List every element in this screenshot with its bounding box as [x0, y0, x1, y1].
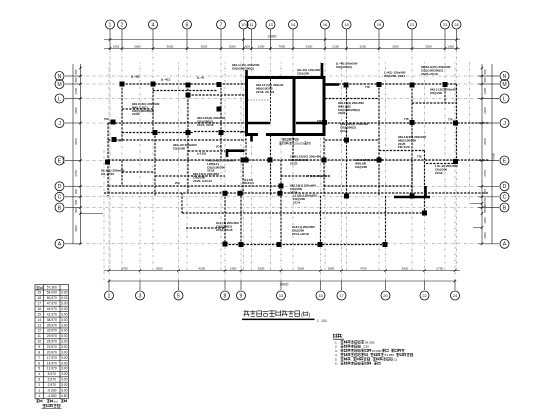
svg-text:-0.030: -0.030: [47, 388, 57, 392]
grid bubble C right: [500, 192, 509, 201]
svg-text:7900: 7900: [278, 44, 285, 48]
svg-text:B: B: [58, 205, 62, 211]
svg-text:A: A: [58, 242, 62, 248]
grid bubble N right: [500, 72, 509, 81]
column C28 at (324,160): [322, 158, 327, 163]
svg-text:-1: -1: [38, 394, 41, 398]
column C8 at (188,132.5): [186, 130, 191, 135]
svg-text:3300: 3300: [392, 44, 399, 48]
svg-text:2300: 2300: [483, 107, 487, 114]
bottom dimension chain upper: [104, 270, 460, 272]
svg-text:16: 16: [323, 22, 327, 27]
svg-text:2300: 2300: [74, 107, 78, 114]
grid line 6 (top): [186, 29, 188, 50]
svg-text:800: 800: [483, 77, 487, 82]
svg-text:38.970: 38.970: [47, 318, 57, 322]
svg-text:J: J: [503, 121, 506, 127]
svg-text:20.970: 20.970: [47, 350, 57, 354]
beam grid18 vertical: [346, 84, 348, 196]
svg-text:2750: 2750: [436, 266, 443, 270]
label stair note line2: [279, 142, 310, 146]
svg-text:4: 4: [38, 372, 40, 376]
svg-text:3250: 3250: [359, 44, 366, 48]
svg-text:256: 256: [240, 130, 245, 134]
column C21 at (412,85): [410, 83, 415, 88]
grid line 4 (top): [152, 29, 154, 50]
grid line B (row): [65, 207, 80, 209]
wall stub above core left: [245, 70, 248, 78]
svg-text:8: 8: [38, 350, 40, 354]
svg-text:1300: 1300: [483, 88, 487, 95]
svg-text:3000: 3000: [229, 44, 236, 48]
grid bubble E right: [500, 156, 509, 165]
column C12 at (114,139.5): [112, 137, 117, 142]
grid line L (row): [65, 98, 80, 100]
svg-text:15: 15: [318, 293, 322, 298]
svg-text:1200: 1200: [258, 44, 265, 48]
svg-text:2750: 2750: [74, 170, 78, 177]
svg-text:53.950: 53.950: [372, 349, 382, 353]
column C14 at (243,160): [241, 158, 246, 163]
shear wall M-row right of core: [324, 83, 339, 86]
column C39 at (424.5,213): [422, 211, 427, 216]
column C5 at (219,109): [217, 107, 222, 112]
svg-text:18: 18: [344, 22, 348, 27]
grid line x469 (un-bubbled): [469, 62, 471, 204]
svg-text:50.970: 50.970: [47, 296, 57, 300]
svg-text:J: J: [58, 121, 61, 127]
svg-text:3: 3: [38, 378, 40, 382]
svg-text:D: D: [58, 184, 62, 190]
svg-text:19: 19: [377, 22, 381, 27]
column C13 at (221,132.5): [219, 130, 224, 135]
grid bubble 8 bottom: [221, 291, 230, 300]
column C17 at (246,160): [244, 158, 249, 163]
beam grid16L vertical: [323, 134, 325, 196]
grid bubble 24 bottom: [451, 291, 460, 300]
svg-text:8.970: 8.970: [48, 372, 56, 376]
svg-text:18: 18: [37, 296, 41, 300]
svg-text:120x570: 120x570: [293, 142, 305, 146]
column C32 at (225,244): [223, 242, 228, 247]
column C22 at (412,122.5): [410, 120, 415, 125]
grid bubble 6 top: [183, 20, 192, 29]
table caption 结构层高表 (fake glyphs): [43, 404, 61, 407]
grid bubble L left: [55, 94, 64, 103]
top dimension chain lower: [104, 48, 460, 50]
column C16 at (281,186): [279, 184, 284, 189]
left dimension chain inner: [80, 64, 82, 244]
beam y213: [182, 212, 426, 214]
svg-text:5.970: 5.970: [48, 378, 56, 382]
grid line 16 (top): [324, 29, 326, 50]
svg-text:2: 2: [38, 383, 40, 387]
svg-text:4200: 4200: [198, 266, 205, 270]
svg-text:3600: 3600: [297, 266, 304, 270]
column C11 at (107.5,162): [105, 160, 110, 165]
svg-text:1: 1: [109, 22, 112, 28]
svg-text:8: 8: [224, 293, 227, 299]
beam grid13t vertical: [270, 135, 272, 196]
beam bottom left rooms: [122, 132, 194, 134]
stair cell opening: [258, 133, 266, 136]
svg-text:29.970: 29.970: [47, 334, 57, 338]
grid bubble 2 top: [118, 20, 127, 29]
right extension tick y227: [473, 227, 482, 229]
right dimension chain inner: [481, 64, 483, 244]
svg-text:776: 776: [417, 155, 422, 159]
svg-text:41.970: 41.970: [47, 312, 57, 316]
svg-text:2.970: 2.970: [48, 383, 56, 387]
grid line 14 (top): [292, 29, 294, 50]
grid bubble 3 bottom: [136, 291, 145, 300]
note line 4: [341, 353, 413, 357]
grid bubble 4 top: [149, 20, 158, 29]
svg-text:3.00: 3.00: [61, 372, 68, 376]
svg-text:15400: 15400: [62, 155, 66, 164]
column C6 at (113,122): [111, 120, 116, 125]
grid line 24 (bottom): [454, 281, 456, 290]
svg-text:(14.15)9C8.1/4: (14.15)9C8.1/4: [244, 178, 254, 185]
svg-text::: :: [342, 334, 343, 339]
svg-text:703: 703: [104, 117, 109, 121]
right extension tick y203: [470, 203, 482, 205]
grid line 11 (top): [251, 29, 253, 50]
grid bubble 1 bottom: [105, 291, 114, 300]
svg-text:L-4(1) 120x400C8@200, 2C14: L-4(1) 120x400C8@200, 2C14: [384, 71, 406, 78]
svg-text:278: 278: [317, 119, 322, 123]
note line 2: [341, 345, 370, 349]
core internal wall J row right segment: [296, 122, 324, 125]
svg-text:M: M: [57, 82, 61, 88]
svg-text:19: 19: [37, 291, 41, 295]
svg-text:31800: 31800: [268, 34, 277, 38]
core internal wall x294: [293, 78, 296, 135]
grid bubble 16 top: [321, 20, 330, 29]
beam y228: [186, 227, 226, 229]
grid bubble 14 top: [289, 20, 298, 29]
grid bubble 5 bottom: [174, 291, 183, 300]
svg-text:6: 6: [38, 361, 40, 365]
column C3 at (188,85): [186, 83, 191, 88]
beam J-row left: [108, 122, 246, 124]
table cell text: [37, 285, 67, 398]
svg-text:3000: 3000: [74, 225, 78, 232]
svg-text:5: 5: [38, 367, 40, 371]
svg-text:26.970: 26.970: [47, 340, 57, 344]
wall x227-244 horizontal: [226, 149, 245, 152]
grid bubble B right: [500, 203, 509, 212]
svg-text:(+4.20): (+4.20): [197, 152, 206, 156]
svg-text:3300: 3300: [425, 44, 432, 48]
column C31 at (280,193.3): [278, 191, 283, 196]
svg-text:500: 500: [483, 208, 487, 213]
notes header 说明: (fake glyphs): [333, 334, 343, 339]
svg-text:2750: 2750: [483, 170, 487, 177]
svg-text:3200: 3200: [306, 44, 313, 48]
svg-text:800: 800: [74, 199, 78, 204]
grid line x104 (un-bubbled): [103, 150, 105, 281]
beam M-row left block: [122, 83, 246, 85]
grid line 23 (top): [444, 29, 446, 50]
beam M-row right block: [324, 83, 457, 85]
grid bubble 21 top: [408, 20, 417, 29]
column C26 at (346.5,140): [344, 138, 349, 143]
grid bubble M right: [500, 80, 509, 89]
beam y176: [281, 175, 330, 177]
svg-text:(L-4C): (L-4C): [161, 78, 170, 82]
grid bubble J left: [55, 119, 64, 128]
svg-text:(L-40): (L-40): [131, 75, 139, 79]
svg-text:.: .: [381, 362, 382, 366]
left dimension chain outer: [72, 64, 74, 244]
beam x379 lower vertical: [378, 161, 380, 197]
svg-text:): ): [308, 312, 310, 318]
grid bubble L right: [500, 94, 509, 103]
svg-text:5: 5: [177, 293, 180, 299]
note line 3: [341, 349, 405, 353]
svg-text:600: 600: [245, 44, 250, 48]
floor elevation table: [35, 285, 69, 399]
svg-text:3.00: 3.00: [61, 361, 68, 365]
svg-text:550: 550: [483, 197, 487, 202]
table row label 屋面 (fake glyphs): [36, 286, 42, 289]
column C24 at (455.5,123): [453, 121, 458, 126]
svg-text:3.00: 3.00: [61, 367, 68, 371]
beam y172: [122, 171, 155, 173]
beam inside stair cell x270: [270, 79, 272, 122]
grid line 19 (top): [378, 29, 380, 50]
svg-text:44.970: 44.970: [47, 307, 57, 311]
svg-text:3000: 3000: [167, 44, 174, 48]
shear wall right x425: [424, 186, 427, 197]
beam grid19 vertical: [378, 84, 380, 160]
svg-text:57.300: 57.300: [47, 285, 57, 289]
svg-text:800: 800: [483, 69, 487, 74]
svg-text:11.970: 11.970: [47, 367, 57, 371]
grid line 15 (bottom): [320, 281, 322, 290]
grid bubble 11 top: [247, 20, 256, 29]
svg-text:,: ,: [368, 353, 369, 357]
svg-text:15400: 15400: [492, 152, 496, 161]
column C20 at (379,84.5): [377, 82, 382, 87]
svg-text:3600: 3600: [402, 266, 409, 270]
svg-text:(m): (m): [54, 399, 58, 403]
grid bubble M left: [55, 80, 64, 89]
svg-text:D: D: [503, 184, 507, 190]
grid line 3 (bottom): [139, 281, 141, 290]
svg-text:776: 776: [448, 118, 453, 122]
svg-text:1: 1: [38, 388, 40, 392]
svg-text:3.00: 3.00: [61, 302, 68, 306]
grid line 7 (top): [220, 29, 222, 50]
svg-text:A: A: [503, 242, 507, 248]
svg-text:13: 13: [279, 293, 283, 298]
beam y140 right room bottom: [325, 139, 379, 141]
svg-text:12.: 12.: [394, 357, 398, 361]
grid bubble 10 top: [239, 20, 248, 29]
svg-text:21: 21: [410, 22, 414, 27]
svg-text:9: 9: [38, 345, 40, 349]
svg-text:1 : 100: 1 : 100: [317, 319, 327, 323]
note line 1: [341, 340, 376, 344]
grid bubble 19 top: [375, 20, 384, 29]
beam x243 vertical: [242, 160, 244, 196]
svg-text:800: 800: [74, 69, 78, 74]
svg-text:4: 4: [152, 22, 155, 28]
column C30 at (240,193.3): [238, 191, 243, 196]
grid bubble E left: [55, 156, 64, 165]
beam x122 lower vertical: [121, 161, 123, 187]
beam y151 left of wall: [188, 150, 225, 152]
grid line E (row): [65, 160, 80, 162]
beam bottom wing edge: [225, 244, 386, 246]
table caption underline: [42, 408, 62, 410]
beam J-row right: [324, 122, 489, 124]
beam y140 across left block: [108, 139, 246, 141]
grid line 13 (bottom): [280, 281, 282, 290]
grid bubble 17 bottom: [337, 291, 346, 300]
svg-text:11: 11: [249, 22, 253, 27]
svg-text:17.970: 17.970: [47, 356, 57, 360]
svg-text:1300: 1300: [74, 88, 78, 95]
svg-text:6.: 6.: [335, 362, 338, 366]
grid line 21 (top): [411, 29, 413, 50]
svg-text:13: 13: [268, 22, 272, 27]
svg-text:3.30: 3.30: [61, 291, 68, 295]
beam y163 right room: [426, 163, 457, 165]
svg-text:10: 10: [37, 340, 41, 344]
column C2 at (153,84): [151, 82, 156, 87]
svg-text:400: 400: [483, 203, 487, 208]
svg-text:47.970: 47.970: [47, 302, 57, 306]
svg-text:3.00: 3.00: [61, 318, 68, 322]
title underline: [242, 319, 315, 321]
column C33 at (241,244.5): [239, 242, 244, 247]
grid bubble 15 bottom: [316, 291, 325, 300]
core internal wall J row left segment: [247, 122, 271, 125]
svg-text:M: M: [502, 82, 506, 88]
grid line 5 (bottom): [178, 281, 180, 290]
svg-text:6: 6: [186, 22, 189, 28]
svg-text:600: 600: [74, 208, 78, 213]
grid line J (row): [65, 122, 80, 124]
svg-text:1400: 1400: [230, 266, 237, 270]
bottom dimension chain lower: [109, 280, 455, 282]
beam C-row: [104, 192, 489, 194]
grid bubble 24 top: [452, 20, 461, 29]
grid line 20 (bottom): [385, 281, 387, 290]
beam y131 corridor: [194, 131, 246, 133]
svg-text:3.00: 3.00: [61, 340, 68, 344]
grid bubble 22 bottom: [420, 291, 429, 300]
svg-text:L7 (1C) 200x400: L7 (1C) 200x400: [306, 174, 328, 178]
grid line 24 (top): [456, 29, 458, 50]
table footer header row 层号 标高 层高 (fake glyphs): [36, 399, 66, 403]
beam grid6 vertical: [187, 85, 189, 160]
left extension tick y213: [81, 213, 104, 215]
beam grid21 vertical: [411, 85, 413, 196]
grid line D (row): [65, 185, 80, 187]
beam x424 vertical: [424, 151, 426, 214]
svg-text:-4.530: -4.530: [47, 394, 57, 398]
svg-text:22: 22: [422, 293, 426, 298]
beam grid10 vertical: [245, 77, 247, 160]
svg-text:3600: 3600: [483, 138, 487, 145]
svg-text:2C4: 2C4: [216, 145, 221, 149]
svg-text:E: E: [503, 158, 507, 164]
grid line 1 (top): [109, 29, 111, 50]
svg-text:778: 778: [365, 85, 370, 89]
svg-text:L: L: [58, 96, 61, 102]
svg-text:35.970: 35.970: [47, 323, 57, 327]
column C1 at (122,84): [120, 82, 125, 87]
svg-text:3500: 3500: [258, 266, 265, 270]
grid bubble 9 bottom: [237, 291, 246, 300]
svg-text:3.00: 3.00: [61, 307, 68, 311]
svg-text:,: ,: [351, 357, 352, 361]
svg-text:L: L: [503, 96, 506, 102]
svg-text:13: 13: [37, 323, 41, 327]
beam x241 vertical: [240, 196, 242, 245]
beam grid13b vertical: [280, 160, 282, 245]
svg-text:3600: 3600: [74, 138, 78, 145]
drawing title 屋面层梁配筋平面图(二) (fake glyphs): [244, 310, 311, 318]
svg-text:900: 900: [74, 189, 78, 194]
svg-text:3.00: 3.00: [61, 312, 68, 316]
column C25 at (455.5,161.5): [453, 159, 458, 164]
beam grid23 vertical: [444, 84, 446, 103]
beam E-row: [108, 159, 489, 161]
svg-text:3.03: 3.03: [61, 296, 68, 300]
svg-text:3000: 3000: [134, 44, 141, 48]
svg-text:17: 17: [339, 293, 343, 298]
svg-text:14: 14: [37, 318, 41, 322]
beam x225 vertical: [224, 193, 226, 245]
beam x412 lower vertical: [411, 160, 413, 196]
right dimension chain outer: [491, 64, 493, 244]
column C27 at (379,160): [377, 158, 382, 163]
svg-text:C: C: [58, 195, 62, 201]
grid line 9 (bottom): [240, 281, 242, 290]
svg-text:2150: 2150: [332, 44, 339, 48]
svg-text:3.00: 3.00: [61, 356, 68, 360]
grid bubble 18 top: [342, 20, 351, 29]
grid bubble 1 top: [106, 20, 115, 29]
svg-text:B: B: [503, 205, 507, 211]
beam y103 right: [412, 102, 457, 104]
column C36 at (385,244.5): [383, 242, 388, 247]
column C38 at (346.5,196): [344, 194, 349, 199]
beam grid7 vertical: [220, 84, 222, 160]
svg-text:2: 2: [121, 22, 124, 28]
note line 6: [341, 362, 383, 366]
svg-text:24600: 24600: [280, 282, 289, 286]
svg-text:3.00: 3.00: [61, 334, 68, 338]
beam grid14 vertical lower: [292, 134, 294, 160]
svg-text:9: 9: [240, 293, 243, 299]
column C19 at (346,85): [344, 83, 349, 88]
svg-text:3.00: 3.00: [61, 329, 68, 333]
grid line 13 (top): [270, 29, 272, 50]
beam x182 vertical: [181, 193, 183, 213]
svg-text:C: C: [503, 195, 507, 201]
column C18 at (324.5,122.5): [322, 120, 327, 125]
svg-text:54.000: 54.000: [47, 291, 57, 295]
wall stub below core left: [250, 135, 253, 142]
svg-text:3: 3: [139, 293, 142, 299]
svg-text:N: N: [503, 74, 507, 80]
